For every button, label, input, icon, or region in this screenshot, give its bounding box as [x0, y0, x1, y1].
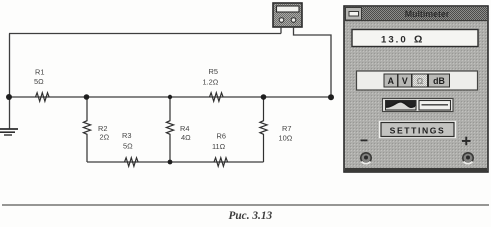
- svg-text:11Ω: 11Ω: [212, 142, 226, 151]
- svg-text:R5: R5: [209, 67, 218, 76]
- svg-text:A: A: [388, 76, 395, 86]
- svg-text:13.0: 13.0: [381, 35, 408, 46]
- resistor R6: [212, 132, 228, 167]
- wire main bus: [9, 96, 331, 98]
- wire multimeter left lead: [280, 27, 282, 34]
- resistor R3: [122, 131, 138, 166]
- svg-text:4Ω: 4Ω: [181, 133, 191, 142]
- svg-text:1.2Ω: 1.2Ω: [203, 78, 219, 87]
- panel title bar: [345, 7, 487, 21]
- svg-text:R3: R3: [122, 131, 131, 140]
- svg-text:R4: R4: [180, 124, 189, 133]
- svg-text:Ω: Ω: [414, 35, 422, 46]
- node junction bus right end: [328, 94, 334, 100]
- wire multimeter right lead: [294, 27, 332, 97]
- resistor R2: [83, 97, 109, 162]
- multimeter panel window: [344, 6, 488, 172]
- panel control-menu box: [346, 8, 362, 21]
- button dB: [429, 74, 450, 87]
- node junction R4 bottom: [168, 160, 173, 165]
- resistor R5: [203, 67, 224, 101]
- button DC line: [419, 101, 451, 111]
- terminal minus: [361, 153, 371, 164]
- svg-text:Ω: Ω: [416, 76, 423, 86]
- node junction R2 top: [84, 94, 90, 100]
- panel mode button strip: [357, 71, 478, 90]
- svg-text:dB: dB: [433, 76, 445, 86]
- button V: [398, 74, 412, 87]
- button AC sine: [386, 101, 417, 111]
- panel display 13.0 Ohm: [352, 30, 478, 47]
- ground: [0, 129, 18, 135]
- terminal plus: [463, 153, 473, 164]
- svg-text:Рис. 3.13: Рис. 3.13: [229, 210, 273, 222]
- svg-text:SETTINGS: SETTINGS: [390, 126, 446, 136]
- wire left vertical: [9, 34, 11, 130]
- svg-text:R1: R1: [35, 68, 44, 77]
- multimeter icon XMM: [273, 3, 302, 27]
- wire top-left horizontal (node to multimeter left lead): [9, 33, 281, 35]
- button A: [384, 74, 398, 87]
- panel ac dc button strip: [383, 99, 454, 112]
- svg-text:10Ω: 10Ω: [279, 134, 293, 143]
- svg-text:R6: R6: [217, 132, 226, 141]
- node junction R7 top: [261, 94, 267, 100]
- node junction left bus: [6, 94, 12, 100]
- svg-text:2Ω: 2Ω: [100, 133, 110, 142]
- svg-text:5Ω: 5Ω: [123, 142, 133, 151]
- label minus: [361, 140, 368, 142]
- wire lower bus: [87, 161, 264, 163]
- resistor R1: [34, 68, 49, 102]
- button SETTINGS: [379, 121, 457, 139]
- svg-text:Multimeter: Multimeter: [405, 9, 450, 19]
- svg-text:5Ω: 5Ω: [34, 77, 44, 86]
- svg-text:R7: R7: [282, 124, 291, 133]
- button Ohm pressed: [412, 74, 428, 87]
- svg-text:V: V: [402, 76, 408, 86]
- resistor R7: [260, 97, 293, 162]
- label plus: [462, 137, 471, 146]
- node junction R4 top: [168, 95, 172, 99]
- resistor R4: [166, 97, 191, 162]
- caption rule: [2, 204, 489, 206]
